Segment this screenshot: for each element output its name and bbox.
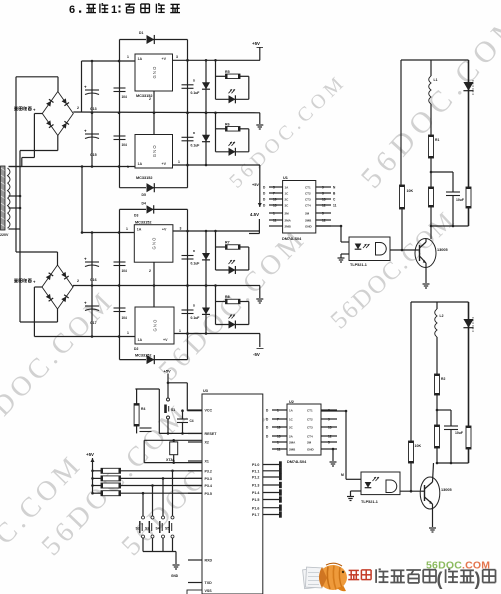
- svg-text:P1.5: P1.5: [252, 498, 259, 502]
- svg-text:3: 3: [180, 227, 182, 231]
- svg-text:5: 5: [322, 212, 324, 216]
- svg-text:M: M: [341, 473, 344, 477]
- svg-text:10K: 10K: [415, 444, 422, 448]
- svg-text:7: 7: [277, 418, 279, 422]
- svg-text:G N O: G N O: [153, 319, 158, 332]
- svg-text:0.1uF: 0.1uF: [191, 316, 200, 320]
- svg-text:+5V: +5V: [86, 452, 94, 457]
- svg-text:TLP521-1: TLP521-1: [350, 263, 367, 267]
- svg-text:XTAL: XTAL: [166, 458, 176, 462]
- svg-text:P1.4: P1.4: [252, 491, 259, 495]
- svg-text:R4: R4: [141, 407, 145, 411]
- svg-text:P3.5: P3.5: [205, 492, 212, 496]
- svg-text:MC33152: MC33152: [136, 176, 152, 180]
- svg-text:-5V: -5V: [253, 352, 260, 357]
- svg-text:P3.3: P3.3: [205, 477, 212, 481]
- svg-text:1: 1: [127, 55, 129, 59]
- svg-text:13: 13: [277, 435, 281, 439]
- svg-text:5: 5: [328, 441, 330, 445]
- svg-text:0.1uF: 0.1uF: [191, 262, 200, 266]
- svg-text:R7: R7: [225, 241, 230, 245]
- svg-text:1: 1: [127, 165, 129, 169]
- svg-text:P1.0: P1.0: [252, 463, 259, 467]
- svg-text:1: 1: [277, 441, 279, 445]
- svg-text:2M: 2M: [285, 212, 290, 216]
- svg-text:D4: D4: [142, 202, 146, 206]
- svg-text:1: 1: [273, 212, 275, 216]
- svg-text:11: 11: [277, 448, 281, 452]
- svg-text:2M: 2M: [307, 441, 312, 445]
- svg-text:P1.3: P1.3: [252, 484, 259, 488]
- svg-text:1: 1: [111, 4, 117, 16]
- svg-text:TXD: TXD: [205, 581, 213, 585]
- svg-text:+V: +V: [162, 57, 167, 61]
- svg-text:12: 12: [322, 219, 326, 223]
- svg-text:2MA: 2MA: [289, 441, 296, 445]
- svg-text:1A: 1A: [138, 162, 143, 166]
- svg-text:R1: R1: [435, 138, 439, 142]
- svg-text:CT2: CT2: [307, 418, 313, 422]
- svg-text:9: 9: [328, 418, 330, 422]
- svg-text:G N O: G N O: [152, 145, 157, 158]
- svg-text:P1.1: P1.1: [252, 470, 259, 474]
- svg-text:+V: +V: [162, 162, 167, 166]
- svg-text:DM74LS04: DM74LS04: [282, 237, 302, 241]
- svg-text:12: 12: [322, 204, 326, 208]
- svg-text:+: +: [84, 301, 87, 306]
- svg-text:GND: GND: [305, 225, 313, 229]
- svg-text:D1: D1: [139, 31, 143, 35]
- svg-text:2: 2: [149, 97, 151, 101]
- svg-text:12: 12: [328, 435, 332, 439]
- svg-text:9: 9: [322, 186, 324, 190]
- svg-text:R8: R8: [225, 295, 230, 299]
- svg-text:U2: U2: [289, 400, 294, 404]
- svg-text:7: 7: [273, 192, 275, 196]
- svg-text:+V: +V: [162, 228, 167, 232]
- svg-text:D3: D3: [134, 214, 138, 218]
- svg-text:4.5V: 4.5V: [250, 212, 259, 217]
- svg-text:2: 2: [77, 279, 79, 283]
- svg-text:1A: 1A: [137, 228, 142, 232]
- svg-text:L1: L1: [434, 78, 438, 82]
- svg-text:1: 1: [179, 329, 181, 333]
- svg-text:CT3: CT3: [305, 198, 311, 202]
- svg-text:2M: 2M: [305, 212, 310, 216]
- svg-text:2: 2: [77, 106, 79, 110]
- svg-text:13005: 13005: [441, 488, 452, 492]
- svg-text:+V: +V: [163, 338, 168, 342]
- svg-text:C16: C16: [90, 278, 97, 282]
- svg-text:S1: S1: [171, 408, 175, 412]
- svg-text:VCC: VCC: [205, 409, 213, 413]
- svg-text:MC33152: MC33152: [135, 221, 151, 225]
- svg-text:RESET: RESET: [205, 432, 218, 436]
- svg-text:U3: U3: [203, 389, 208, 393]
- svg-text:DM74LS04: DM74LS04: [287, 460, 307, 464]
- svg-text:P1.6: P1.6: [252, 506, 259, 510]
- svg-text:G N O: G N O: [152, 237, 157, 250]
- svg-text:104: 104: [122, 316, 128, 320]
- svg-text:10uF: 10uF: [456, 198, 464, 202]
- svg-text:13005: 13005: [437, 248, 448, 252]
- svg-text:10: 10: [273, 198, 277, 202]
- svg-text:P3.4: P3.4: [205, 484, 212, 488]
- svg-text:R5: R5: [225, 70, 230, 74]
- svg-text:10K: 10K: [407, 189, 414, 193]
- svg-text:11: 11: [273, 219, 277, 223]
- svg-text:P1.7: P1.7: [252, 513, 259, 517]
- svg-text:(: (: [437, 569, 443, 589]
- svg-text:GND: GND: [171, 574, 179, 578]
- svg-text:CT1: CT1: [305, 186, 311, 190]
- svg-text:S2: S2: [136, 527, 140, 531]
- svg-text:1: 1: [178, 160, 180, 164]
- svg-text:1A: 1A: [138, 338, 143, 342]
- svg-text:+: +: [84, 85, 87, 90]
- svg-text:104: 104: [122, 143, 128, 147]
- svg-text:CT3: CT3: [307, 426, 313, 430]
- svg-text:P3.2: P3.2: [205, 470, 212, 474]
- svg-text:RXD: RXD: [205, 559, 213, 563]
- svg-text:3: 3: [322, 192, 324, 196]
- svg-text:G N O: G N O: [152, 66, 157, 79]
- svg-text:1: 1: [277, 409, 279, 413]
- svg-text:2: 2: [149, 269, 151, 273]
- svg-text:10uF: 10uF: [455, 431, 463, 435]
- svg-text:+5V: +5V: [252, 183, 259, 187]
- svg-text:CT1: CT1: [307, 409, 313, 413]
- svg-text:R2: R2: [441, 377, 445, 381]
- svg-text:C15: C15: [90, 153, 97, 157]
- svg-text:C4: C4: [190, 419, 194, 423]
- svg-text:D5: D5: [142, 193, 146, 197]
- svg-text:S5: S5: [165, 527, 169, 531]
- svg-text:13: 13: [328, 426, 332, 430]
- svg-text:2MB: 2MB: [305, 219, 312, 223]
- svg-text:X2: X2: [205, 441, 209, 445]
- svg-text:104: 104: [122, 95, 128, 99]
- svg-text:10: 10: [277, 426, 281, 430]
- svg-text:2MB: 2MB: [289, 448, 296, 452]
- svg-text:+5V: +5V: [164, 369, 172, 374]
- svg-text:CT2: CT2: [305, 192, 311, 196]
- svg-text:5: 5: [273, 186, 275, 190]
- svg-text:S4: S4: [156, 527, 160, 531]
- svg-text:CT4: CT4: [305, 204, 311, 208]
- svg-text:3: 3: [176, 55, 178, 59]
- svg-text:104: 104: [122, 269, 128, 273]
- svg-text:0.1uF: 0.1uF: [191, 91, 200, 95]
- svg-text:13: 13: [322, 198, 326, 202]
- svg-text:0.1uF: 0.1uF: [191, 143, 200, 147]
- svg-text:2MB: 2MB: [285, 225, 292, 229]
- svg-text:13: 13: [273, 204, 277, 208]
- svg-text:2MA: 2MA: [285, 219, 292, 223]
- svg-text:1A: 1A: [138, 57, 143, 61]
- svg-text:GND: GND: [307, 448, 315, 452]
- svg-text:R6: R6: [225, 123, 230, 127]
- svg-text:220V: 220V: [0, 233, 9, 237]
- svg-text:56DOC.COM: 56DOC.COM: [426, 560, 490, 572]
- svg-text:S3: S3: [145, 527, 149, 531]
- svg-text:X1: X1: [205, 460, 209, 464]
- svg-text:U1: U1: [283, 176, 288, 180]
- svg-text:VSS: VSS: [205, 589, 213, 593]
- svg-text:L2: L2: [440, 314, 444, 318]
- svg-text:1: 1: [127, 331, 129, 335]
- svg-text:11: 11: [333, 204, 337, 208]
- svg-text:D2: D2: [134, 347, 138, 351]
- svg-text:): ): [475, 569, 481, 589]
- svg-text:+5V: +5V: [252, 41, 260, 46]
- svg-text:CT4: CT4: [307, 435, 313, 439]
- svg-text:C13: C13: [90, 107, 97, 111]
- svg-text:6: 6: [69, 4, 75, 16]
- svg-text:1: 1: [126, 227, 128, 231]
- svg-text:C17: C17: [90, 321, 97, 325]
- svg-text:+: +: [84, 257, 87, 262]
- svg-text:P1.2: P1.2: [252, 476, 259, 480]
- svg-text:+: +: [84, 129, 87, 134]
- svg-text:TLP521-1: TLP521-1: [361, 500, 378, 504]
